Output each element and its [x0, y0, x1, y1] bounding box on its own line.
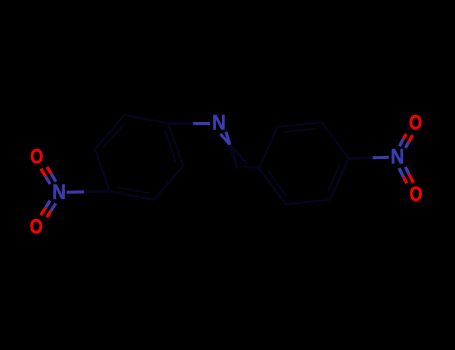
svg-text:O: O	[30, 146, 43, 169]
svg-text:O: O	[409, 183, 422, 206]
svg-text:O: O	[30, 216, 43, 239]
svg-text:N: N	[52, 181, 66, 204]
svg-text:N: N	[391, 145, 405, 168]
svg-text:N: N	[212, 112, 226, 135]
svg-text:O: O	[409, 112, 422, 135]
